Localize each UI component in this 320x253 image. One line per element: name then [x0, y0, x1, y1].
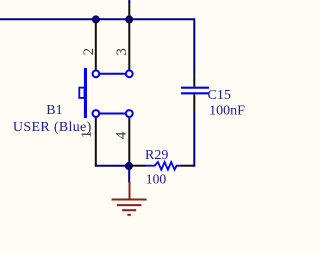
wire: stub entering from top edge on pin-3 column — [128, 0, 130, 3]
pin connect line top row of button — [99, 73, 126, 75]
capacitor pin black lower — [193, 94, 195, 110]
svg-text:C15: C15 — [208, 88, 231, 103]
ground stem — [129, 182, 131, 200]
button actuator bump — [79, 88, 84, 98]
capacitor pin black upper — [193, 73, 195, 87]
node junction dot bottom rail — [125, 162, 133, 170]
wire: pin 1 vertical black segment below button — [95, 117, 97, 165]
capacitor bottom plate — [181, 92, 209, 94]
pin circle 2 (top-left) — [93, 70, 100, 77]
wire: pin 3 vertical black segment — [128, 3, 130, 71]
wire: right column blue from cap bottom to resistor corner — [193, 111, 195, 166]
button actuator bar — [84, 68, 87, 118]
node junction dot left on top net — [92, 15, 100, 23]
resistor right pin black — [180, 165, 194, 167]
pin circle 3 (top-right) — [126, 70, 133, 77]
svg-text:1: 1 — [79, 131, 95, 139]
wire: top horizontal net from left edge to right corner — [0, 19, 194, 73]
wire: blue drop from junction toward ground — [128, 166, 130, 182]
svg-text:B1: B1 — [46, 103, 62, 118]
pin connect line bottom row of button — [99, 113, 126, 115]
ground bar 3 — [122, 209, 136, 211]
svg-text:2: 2 — [81, 48, 97, 56]
svg-text:100: 100 — [146, 172, 167, 187]
capacitor top plate — [181, 87, 209, 89]
pin circle 4 (bottom-right) — [126, 110, 133, 117]
svg-text:R29: R29 — [145, 148, 168, 163]
pin circle 1 (bottom-left) — [93, 110, 100, 117]
svg-text:100nF: 100nF — [209, 103, 245, 118]
wire: pin 2 vertical black segment — [95, 19, 97, 70]
resistor zigzag body — [145, 162, 180, 170]
svg-text:4: 4 — [114, 131, 130, 139]
ground bar 1 — [112, 199, 147, 201]
wire: bottom rail blue from pin1 corner to junction — [96, 164, 129, 166]
node junction dot right on top net — [125, 15, 133, 23]
ground bar 2 — [117, 204, 141, 206]
ground bar 4 — [127, 214, 130, 216]
wire: pin 4 vertical black segment below button — [128, 117, 130, 166]
resistor left pin black — [130, 165, 146, 167]
svg-text:3: 3 — [114, 48, 130, 56]
